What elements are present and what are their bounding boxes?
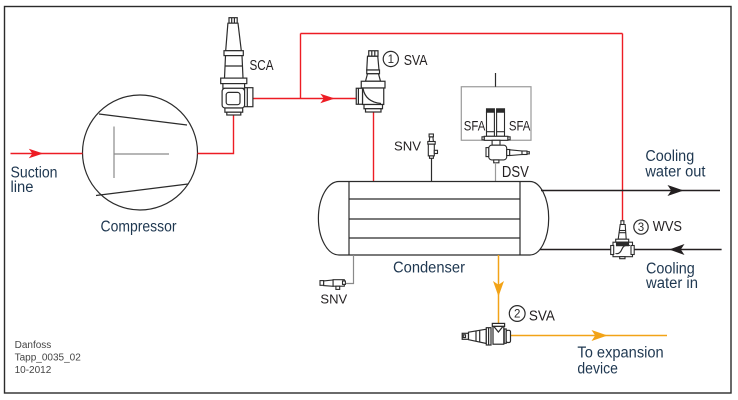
wire SVA1 to condenser (red) [373, 111, 375, 182]
wire cooling water in (black) [540, 249, 722, 251]
svg-text:SVA: SVA [404, 52, 428, 69]
wire SNV top to condenser (black) [431, 158, 433, 181]
wire top header (red) [301, 33, 623, 35]
svg-text:WVS: WVS [653, 219, 682, 235]
svg-text:SFA: SFA [464, 119, 486, 134]
arrow to expansion [592, 330, 608, 341]
valve SVA2 [462, 323, 510, 345]
svg-text:SFA: SFA [509, 119, 531, 134]
label circled 1 [383, 51, 398, 66]
wire DSV to condenser (gray) [495, 163, 497, 182]
wire condenser drain to SNV bottom (gray) [346, 255, 354, 284]
valve SNV top [428, 134, 438, 158]
svg-text:3: 3 [638, 222, 644, 234]
svg-text:Condenser: Condenser [393, 260, 465, 277]
label circled 3 [634, 220, 648, 234]
compressor [83, 95, 198, 210]
svg-text:Compressor: Compressor [101, 218, 177, 235]
wire pilot line to WVS (red) [622, 34, 624, 221]
valve SFA left [487, 109, 495, 137]
svg-text:Coolingwater in: Coolingwater in [645, 261, 698, 292]
arrow cooling water in [669, 244, 684, 255]
arrow liquid down [493, 281, 504, 297]
arrow into SVA1 [320, 94, 335, 104]
valve SCA [221, 18, 253, 115]
valve WVS [611, 221, 635, 259]
arrow suction [29, 149, 44, 159]
svg-text:SNV: SNV [394, 138, 421, 153]
safety relief box [461, 87, 531, 141]
wire DSV vent (gray) [495, 73, 497, 87]
svg-text:2: 2 [514, 309, 520, 321]
wire cooling water out (black) [541, 190, 720, 192]
valve SFA right [497, 109, 505, 137]
svg-text:SNV: SNV [320, 291, 347, 306]
svg-text:1: 1 [388, 54, 394, 66]
valve DSV manifold [482, 136, 529, 162]
wire junction to SVA1 (red) [301, 98, 357, 100]
label circled 2 [509, 306, 525, 322]
valve SNV bottom [320, 280, 345, 290]
svg-text:DSV: DSV [502, 164, 530, 181]
wire compressor discharge to SCA (red) [198, 115, 234, 154]
arrow cooling water out [668, 185, 684, 196]
valve SVA1 [356, 51, 385, 112]
wire suction line (red) [11, 153, 83, 155]
wire SVA2 to expansion (orange) [511, 335, 667, 337]
condenser [318, 182, 548, 256]
wire condenser liquid out (orange) [498, 255, 500, 323]
wire SCA outlet to junction (red) [253, 98, 301, 100]
wire junction riser (red) [300, 34, 302, 99]
svg-text:SVA: SVA [529, 308, 555, 324]
svg-text:SCA: SCA [250, 58, 274, 74]
